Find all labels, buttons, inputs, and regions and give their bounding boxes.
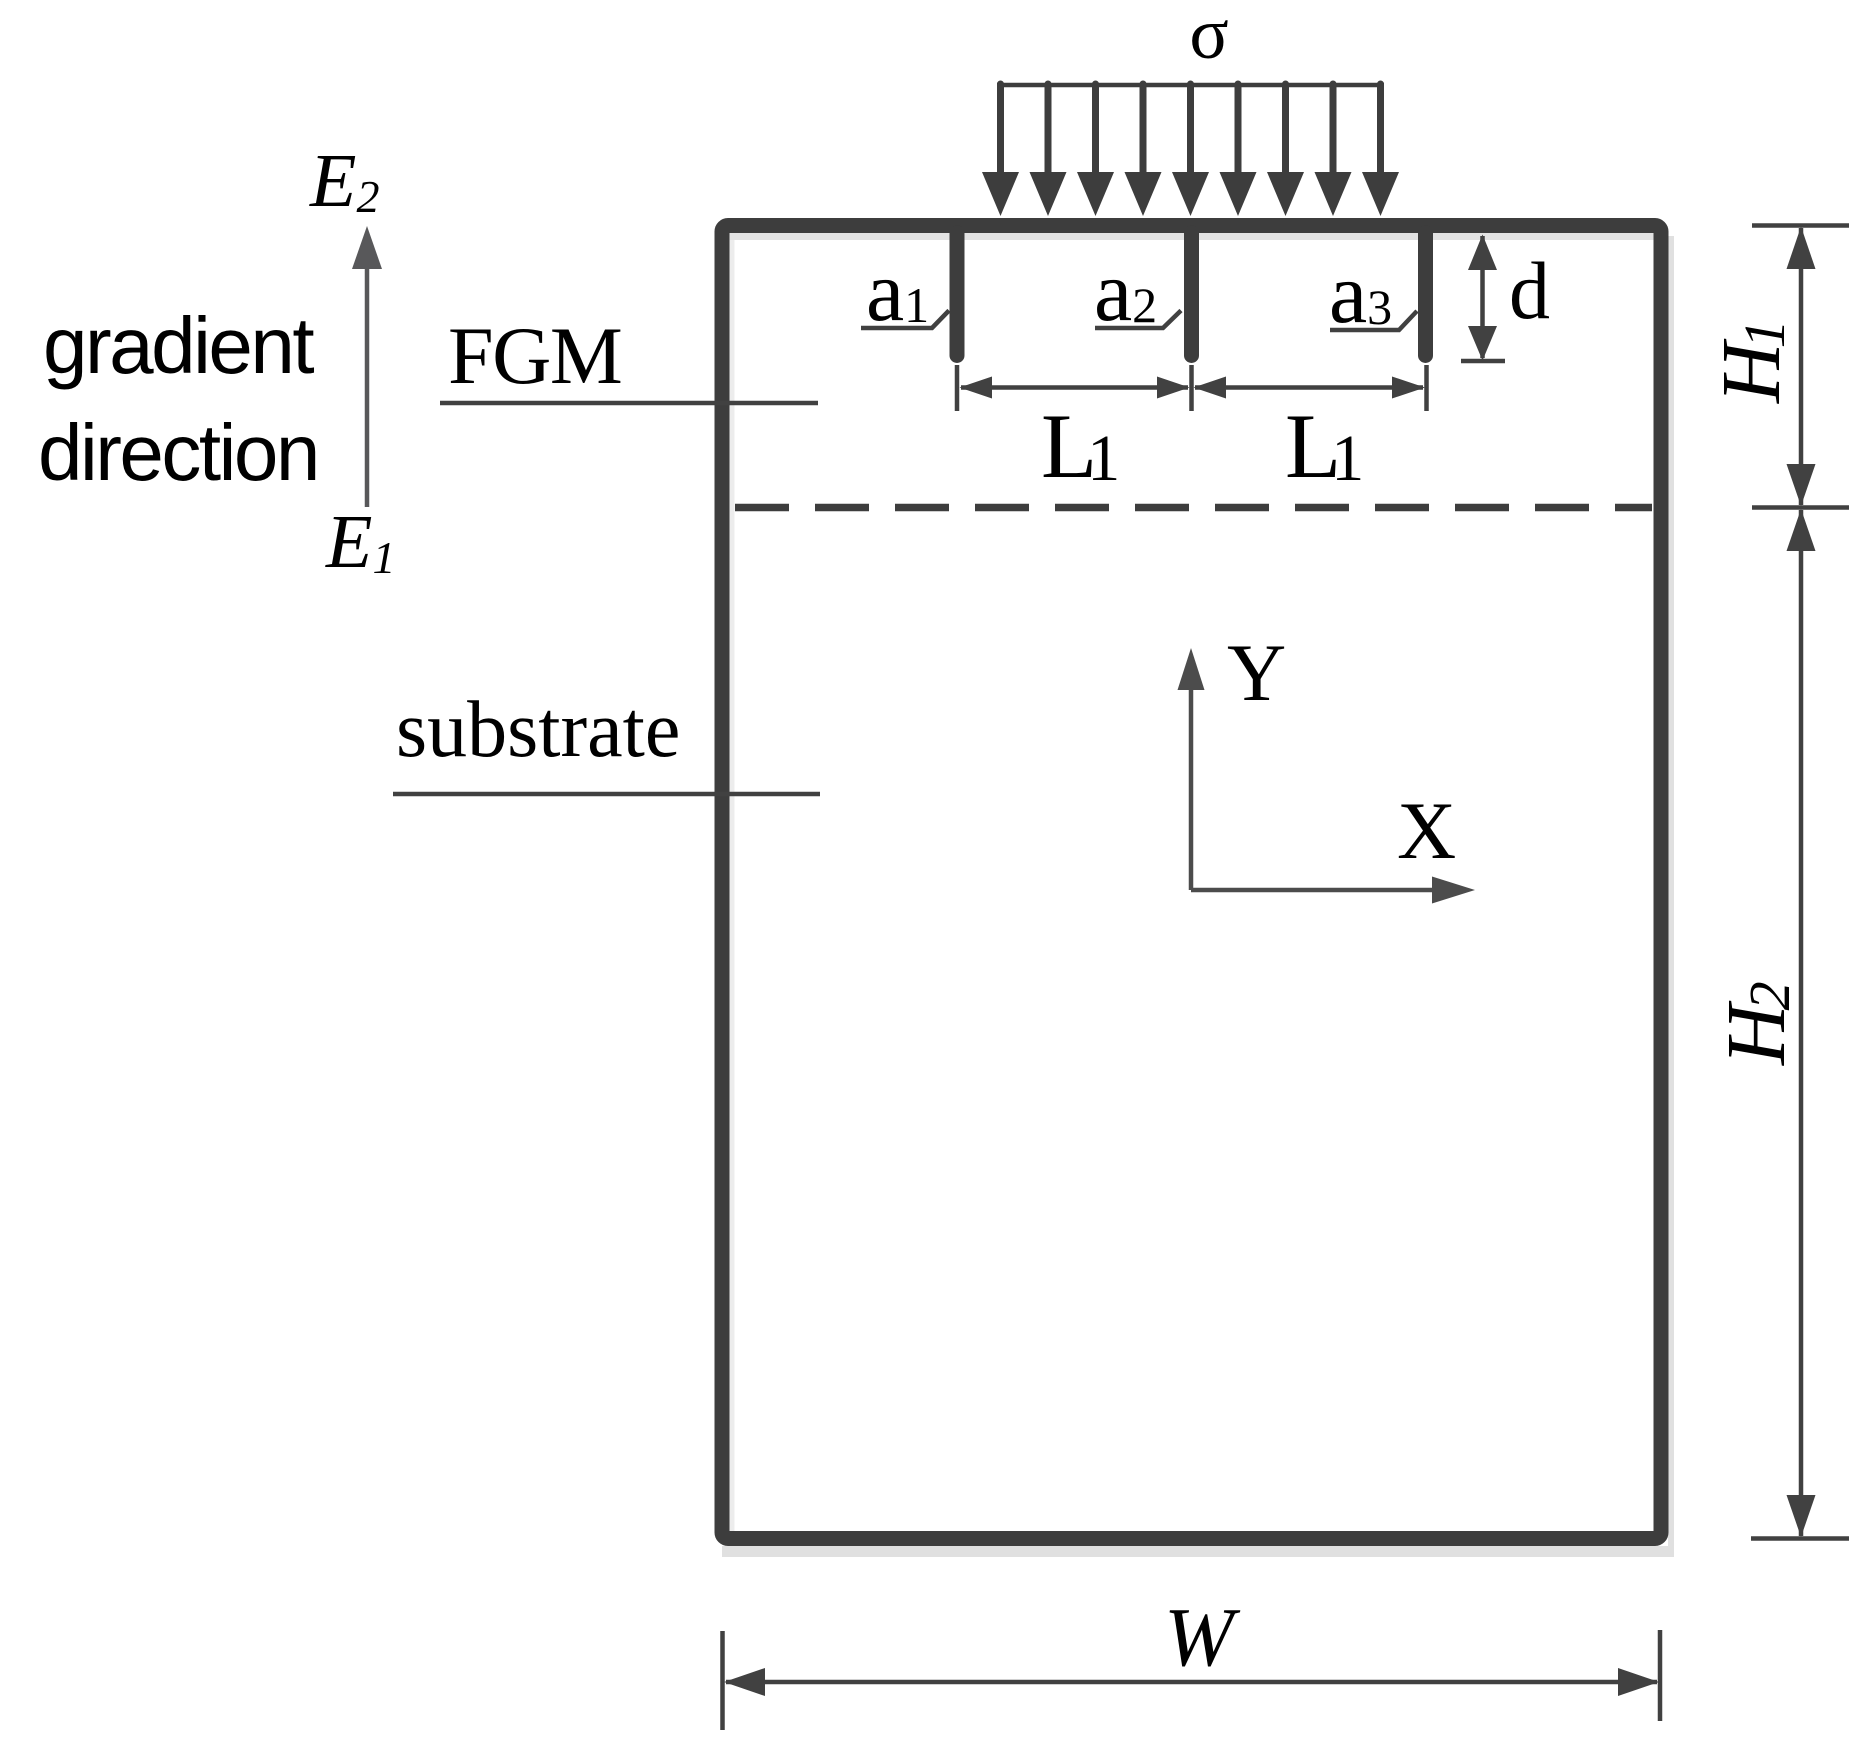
- svg-text:substrate: substrate: [396, 686, 680, 774]
- W dimension line: [724, 1668, 1659, 1696]
- bottom tick: [1751, 1536, 1849, 1541]
- H1 dimension line: [1787, 227, 1816, 507]
- FGM leader line: [440, 401, 818, 406]
- inner shadow top: [730, 233, 1654, 240]
- svg-text:Y: Y: [1227, 627, 1286, 718]
- substrate leader line: [393, 792, 820, 797]
- load arrow 8: [1315, 84, 1352, 216]
- L1 extension line below crack a1: [955, 365, 960, 411]
- svg-text:direction: direction: [38, 408, 318, 497]
- leader line a2: [1095, 311, 1181, 329]
- load arrow 4: [1125, 84, 1162, 216]
- X axis: [1191, 877, 1475, 904]
- L1 dimension line right: [1194, 377, 1426, 399]
- svg-text:X: X: [1397, 785, 1456, 876]
- leader line a1: [861, 311, 949, 329]
- load arrow 1: [982, 84, 1019, 216]
- load arrow 5: [1172, 84, 1209, 216]
- H2 dimension line: [1787, 509, 1816, 1537]
- L1 extension line below crack a3: [1424, 365, 1429, 411]
- W right extension line: [1658, 1630, 1663, 1721]
- specimen body outline: [722, 226, 1661, 1539]
- Y axis: [1178, 648, 1205, 890]
- inner shadow left: [730, 240, 735, 1531]
- outer drop shadow right: [1668, 236, 1674, 1550]
- crack a3: [1418, 233, 1433, 356]
- svg-text:d: d: [1509, 245, 1550, 336]
- L1 dimension line left: [960, 377, 1190, 399]
- svg-text:W: W: [1164, 1591, 1241, 1684]
- load arrow 2: [1030, 84, 1067, 216]
- svg-text:FGM: FGM: [448, 310, 621, 401]
- gradient direction arrow: [352, 226, 382, 507]
- crack a2: [1184, 233, 1199, 356]
- outer drop shadow bottom: [722, 1546, 1674, 1557]
- H1 top tick: [1752, 223, 1849, 228]
- crack a1: [950, 233, 965, 356]
- svg-text:gradient: gradient: [43, 301, 314, 390]
- d dimension line: [1461, 235, 1505, 362]
- FGM/substrate interface dashed line: [735, 504, 1652, 512]
- distributed load top bar: [997, 83, 1384, 88]
- svg-text:σ: σ: [1189, 0, 1228, 74]
- leader line a3: [1330, 311, 1417, 330]
- interface tick: [1752, 505, 1849, 510]
- load arrow 7: [1267, 84, 1304, 216]
- load arrow 3: [1077, 84, 1114, 216]
- load arrow 9: [1362, 84, 1399, 216]
- W left extension line: [720, 1631, 725, 1730]
- load arrow 6: [1220, 84, 1257, 216]
- L1 extension line below crack a2: [1189, 365, 1194, 411]
